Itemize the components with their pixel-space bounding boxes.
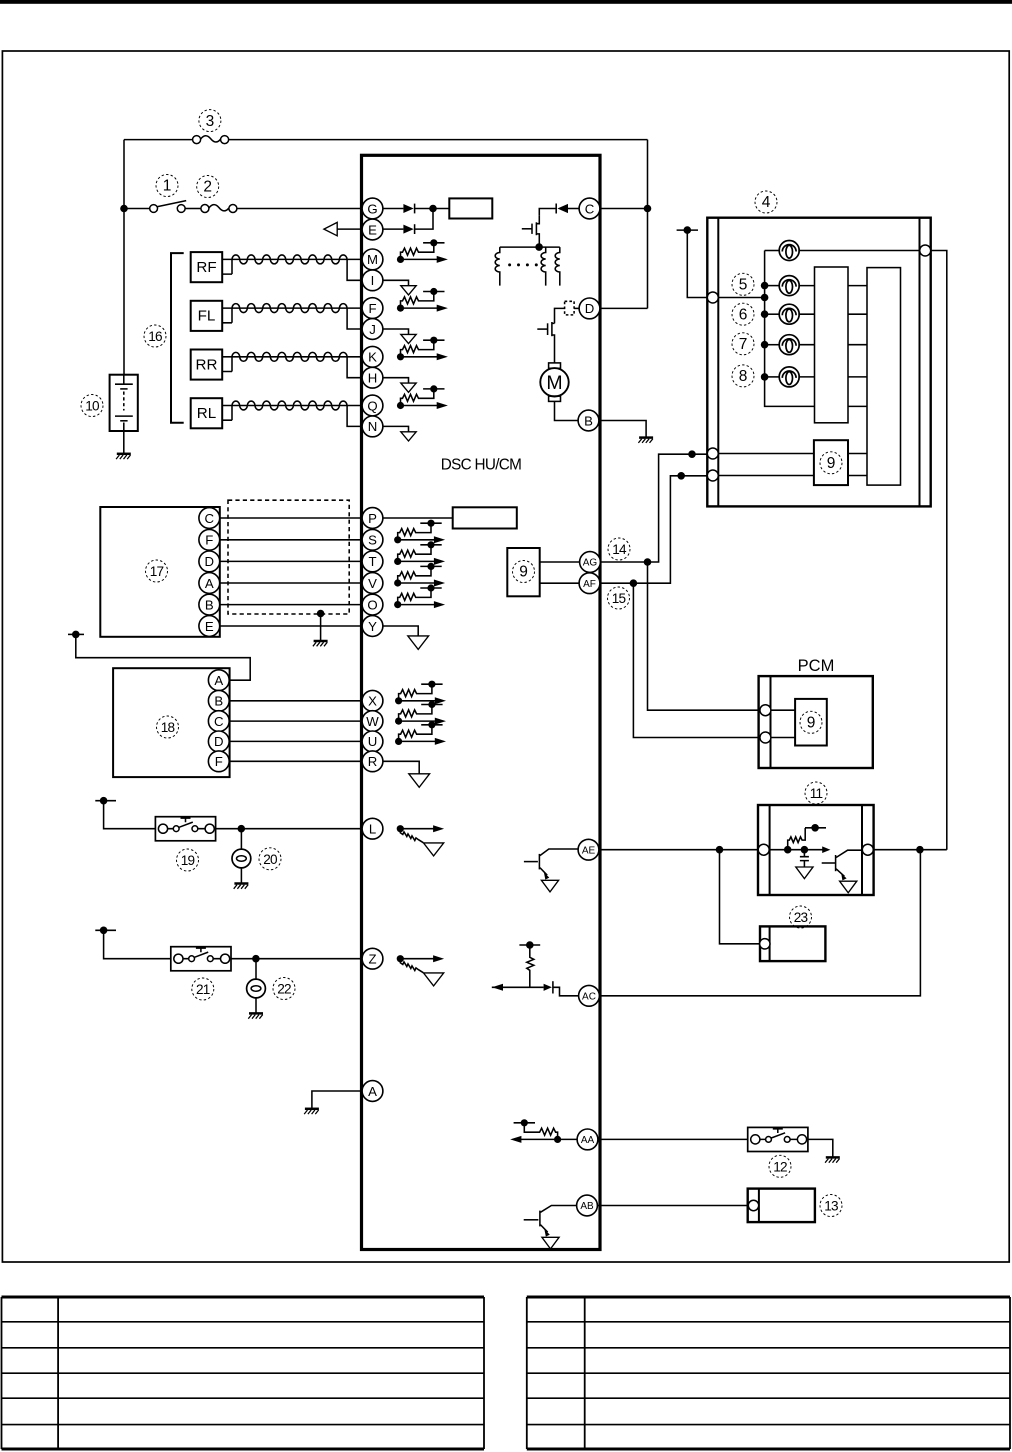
- FET pump motor driver (lower): [551, 322, 553, 336]
- terminal H: [362, 367, 383, 388]
- svg-text:14: 14: [612, 542, 627, 557]
- sensor17 pin E: [199, 616, 220, 637]
- svg-text:AG: AG: [583, 558, 598, 569]
- label 21: [192, 978, 214, 1000]
- label 18: [157, 716, 179, 738]
- label 17: [146, 560, 168, 582]
- wire switch19 to L: [216, 828, 363, 830]
- cluster pin AG: [707, 448, 718, 459]
- input circuit: [395, 701, 446, 725]
- switch 19: [155, 817, 215, 841]
- wire pin to gauge 9 top: [718, 453, 814, 455]
- dotted core line: [508, 263, 511, 266]
- triangle J: [401, 334, 416, 343]
- wire 18-F: [229, 760, 362, 762]
- label 20: [259, 848, 281, 870]
- wire to switch 1: [124, 208, 150, 210]
- wheel speed sensor FL: [191, 301, 223, 331]
- warning lamp 1: [765, 250, 780, 252]
- ground battery: [116, 454, 131, 459]
- wire diode to FET1: [539, 209, 556, 216]
- triangle AE emitter: [541, 880, 558, 892]
- warning lamp 2: [765, 285, 780, 287]
- svg-text:AF: AF: [583, 579, 596, 590]
- triangle Y: [408, 636, 429, 650]
- junction to AC: [916, 846, 924, 854]
- terminal R: [362, 751, 383, 772]
- junction lamp bus: [761, 294, 769, 302]
- terminal X: [362, 690, 383, 711]
- diode at G: [403, 204, 413, 213]
- svg-text:AC: AC: [582, 991, 596, 1002]
- svg-text:M: M: [546, 372, 562, 394]
- svg-text:7: 7: [739, 336, 748, 353]
- input circuit: [394, 541, 445, 565]
- coil left: [495, 247, 500, 286]
- steering angle sensor 18: [113, 668, 230, 777]
- input circuit AA mirrored: [510, 1119, 561, 1143]
- fuse 2: [201, 205, 237, 213]
- box internal relay: [449, 198, 492, 218]
- svg-text:DSC HU/CM: DSC HU/CM: [441, 457, 521, 474]
- sensor17 pin A: [199, 573, 220, 594]
- svg-text:10: 10: [85, 399, 100, 414]
- wire AA cluster to AA: [558, 1138, 578, 1140]
- wire 17-A: [220, 582, 362, 584]
- svg-text:Q: Q: [367, 398, 377, 413]
- svg-text:E: E: [368, 222, 377, 237]
- sensor17 pin F: [199, 529, 220, 550]
- sensor18 pin D: [208, 731, 229, 752]
- wire E diode up to junction: [415, 209, 433, 230]
- cluster inner block left: [815, 267, 849, 423]
- terminal A: [362, 1081, 383, 1102]
- svg-text:Y: Y: [368, 619, 377, 634]
- wire D out: [600, 307, 648, 309]
- input circuit Q: [397, 385, 448, 409]
- wire sensor RF coil to M: [232, 258, 362, 260]
- ground A: [304, 1109, 319, 1114]
- terminal AA: [577, 1129, 598, 1150]
- svg-text:RL: RL: [197, 405, 216, 422]
- svg-text:F: F: [215, 754, 223, 769]
- junction to 23: [716, 846, 724, 854]
- shield dashed box: [228, 500, 349, 614]
- svg-text:A: A: [368, 1084, 377, 1099]
- wire to unit 23: [720, 850, 760, 944]
- svg-text:4: 4: [762, 194, 771, 211]
- wire P to box: [383, 517, 453, 519]
- terminal S: [362, 529, 383, 550]
- label 19: [177, 849, 199, 871]
- relay 11 internals: [769, 849, 804, 851]
- power stub Z: [95, 929, 116, 931]
- svg-text:9: 9: [807, 715, 816, 732]
- ignition switch 1: [150, 205, 158, 213]
- pump motor M: [549, 363, 561, 368]
- wire sensor RR to H: [347, 357, 362, 378]
- label 22: [273, 978, 295, 1000]
- svg-text:V: V: [368, 576, 377, 591]
- wire diode to C: [568, 208, 579, 210]
- ground B: [638, 438, 653, 443]
- svg-text:5: 5: [739, 277, 748, 294]
- pin 13: [748, 1200, 758, 1210]
- svg-text:M: M: [367, 252, 378, 267]
- power stub into cluster: [677, 229, 698, 231]
- wire cluster to AE net: [931, 251, 947, 850]
- power stub sensor 18: [68, 633, 84, 635]
- cluster pin AF: [707, 470, 718, 481]
- svg-text:9: 9: [827, 455, 836, 472]
- svg-text:AA: AA: [581, 1135, 595, 1146]
- output circuit L: [397, 825, 444, 856]
- internal wire I: [383, 280, 409, 285]
- wire 17-F: [220, 539, 362, 541]
- triangle N: [401, 432, 416, 441]
- input circuit: [395, 721, 446, 745]
- terminal T: [362, 551, 383, 572]
- wire power to 18-A: [76, 634, 250, 680]
- transistor at AE: [540, 849, 578, 856]
- triangle R: [409, 774, 430, 788]
- svg-text:Z: Z: [368, 951, 376, 966]
- svg-text:18: 18: [161, 720, 175, 735]
- svg-text:K: K: [368, 350, 377, 365]
- terminal L: [362, 818, 383, 839]
- internal wire J: [383, 329, 409, 334]
- terminal E: [362, 219, 383, 240]
- svg-text:D: D: [585, 301, 595, 316]
- junction C net: [644, 205, 652, 213]
- label 2: [197, 176, 219, 198]
- PCM CAN unit 9: [795, 699, 827, 746]
- wire fuse3 left: [124, 139, 193, 141]
- terminal C: [579, 198, 600, 219]
- wire 18-D: [229, 740, 362, 742]
- svg-text:13: 13: [824, 1199, 838, 1214]
- svg-text:T: T: [368, 554, 376, 569]
- legend table left: [2, 1297, 485, 1449]
- triangle I: [401, 286, 416, 295]
- terminal U: [362, 731, 383, 752]
- terminal F: [362, 298, 383, 319]
- ground 22: [248, 1013, 263, 1018]
- wire Y to triangle: [383, 626, 418, 636]
- terminal O: [362, 594, 383, 615]
- svg-text:U: U: [368, 734, 378, 749]
- wire fuse2 to terminal G: [237, 208, 362, 210]
- svg-text:FL: FL: [198, 308, 216, 325]
- svg-text:9: 9: [519, 564, 528, 581]
- svg-text:F: F: [205, 533, 213, 548]
- input circuit: [395, 681, 446, 705]
- wire 17-D: [220, 560, 362, 562]
- terminal AC: [579, 985, 600, 1006]
- svg-text:X: X: [368, 694, 377, 709]
- wheel speed sensor RF: [191, 252, 223, 282]
- cluster inner block right: [867, 268, 901, 486]
- wire to FET2: [555, 308, 565, 323]
- svg-text:D: D: [214, 734, 224, 749]
- svg-text:F: F: [368, 301, 376, 316]
- terminal G: [362, 198, 383, 219]
- svg-text:20: 20: [263, 852, 278, 867]
- wire 9 to AG: [540, 561, 580, 563]
- wire sensor RR coil to K: [232, 356, 362, 358]
- cluster gauge unit 9: [814, 440, 848, 485]
- wire switch21 to Z: [231, 958, 362, 960]
- cluster left rail: [717, 218, 719, 507]
- FET Q-motor-relay (upper): [535, 222, 537, 235]
- wheel speed sensor RL: [191, 398, 223, 428]
- input circuit M: [397, 239, 448, 263]
- cluster pin power: [707, 292, 718, 303]
- wire A to ground: [312, 1091, 362, 1108]
- legend table right: [527, 1297, 1010, 1449]
- ground 12: [825, 1157, 840, 1162]
- wire battery vertical: [123, 140, 125, 375]
- wire sensor RL coil to Q: [232, 405, 362, 407]
- power stub L: [95, 800, 116, 802]
- battery 10: [110, 375, 138, 431]
- ground shield: [313, 641, 328, 646]
- input circuit: [394, 563, 445, 587]
- terminal AG: [580, 552, 601, 573]
- wire AF net: [600, 476, 707, 583]
- svg-text:12: 12: [773, 1160, 787, 1175]
- terminal D: [579, 298, 600, 319]
- svg-text:L: L: [369, 821, 376, 836]
- terminal N: [362, 416, 383, 437]
- svg-text:19: 19: [181, 853, 195, 868]
- wire sensor RF to I: [347, 259, 362, 280]
- svg-text:W: W: [366, 714, 379, 729]
- wire motor to B: [555, 401, 579, 420]
- junction coil feed: [535, 243, 543, 251]
- wire stub to switch 21: [104, 930, 171, 958]
- svg-text:R: R: [368, 754, 378, 769]
- svg-text:16: 16: [148, 329, 162, 344]
- svg-text:C: C: [214, 714, 224, 729]
- terminal AE: [578, 839, 599, 860]
- warning lamp 4: [765, 344, 780, 346]
- wire 17-E: [220, 625, 362, 627]
- terminal AF: [579, 573, 600, 594]
- label 5: [732, 273, 754, 295]
- label 6: [732, 303, 754, 325]
- terminal I: [362, 270, 383, 291]
- terminal M: [362, 249, 383, 270]
- svg-text:3: 3: [206, 113, 215, 130]
- input circuit: [394, 584, 445, 608]
- wire AB to unit 13: [597, 1205, 748, 1207]
- svg-text:6: 6: [739, 306, 748, 323]
- wire AF to PCM: [633, 583, 760, 737]
- svg-text:D: D: [205, 554, 215, 569]
- svg-text:N: N: [368, 419, 378, 434]
- label 15: [608, 587, 630, 609]
- svg-text:I: I: [371, 273, 375, 288]
- diagnostic unit 13: [748, 1189, 815, 1223]
- label 1: [156, 175, 178, 197]
- label 16: [144, 325, 166, 347]
- warning lamp 5: [765, 376, 780, 378]
- brake switch 12: [748, 1127, 808, 1151]
- indicator 20: [240, 829, 242, 850]
- svg-text:RF: RF: [196, 259, 216, 276]
- input circuit F: [397, 288, 448, 312]
- bracket 16: [171, 253, 184, 423]
- wire E to diode: [383, 228, 404, 230]
- svg-text:RR: RR: [196, 356, 218, 373]
- label 8: [732, 365, 754, 387]
- top black bar: [0, 0, 1012, 4]
- internal wire N: [383, 426, 409, 431]
- junction 22: [252, 955, 260, 963]
- triangle H: [401, 383, 416, 392]
- cluster right rail: [919, 218, 921, 507]
- wire AC net: [599, 850, 921, 996]
- sensor17 pin B: [199, 594, 220, 615]
- sensor18 pin C: [208, 711, 229, 732]
- diode at C: [557, 204, 568, 213]
- input circuit K: [397, 337, 448, 361]
- pin 23: [760, 939, 770, 949]
- svg-text:A: A: [205, 576, 214, 591]
- switch 21: [171, 947, 231, 971]
- label 3: [199, 110, 221, 132]
- svg-text:2: 2: [203, 179, 212, 196]
- wire G to diode: [383, 208, 404, 210]
- terminal Y: [362, 616, 383, 637]
- label 4: [755, 191, 777, 213]
- indicator 22: [255, 959, 257, 980]
- sensor18 pin A: [208, 670, 229, 691]
- PCM pin 2: [760, 732, 771, 743]
- wire C out: [600, 208, 648, 210]
- svg-text:PCM: PCM: [798, 657, 835, 675]
- junction 20: [238, 825, 246, 833]
- svg-text:C: C: [585, 201, 595, 216]
- wire AE net left: [599, 849, 758, 851]
- wire AE net right: [874, 849, 947, 851]
- wire AG to PCM: [648, 562, 760, 710]
- wire lamp1 to pin: [798, 250, 919, 252]
- svg-text:H: H: [368, 370, 378, 385]
- wire 17-B: [220, 604, 362, 606]
- box internal unit at P: [453, 507, 517, 528]
- DSC HU/CM control module box: [362, 155, 601, 1249]
- terminal AB: [577, 1195, 598, 1216]
- wire fuse3 right to C/D net: [229, 139, 648, 141]
- wire diode to box: [415, 208, 450, 210]
- ground 20: [234, 884, 249, 889]
- svg-text:G: G: [367, 201, 377, 216]
- coil right: [555, 247, 560, 286]
- pin 11 right: [862, 844, 873, 855]
- wire 9 to AF: [540, 582, 580, 584]
- terminal W: [362, 711, 383, 732]
- lamp supply bus: [765, 251, 815, 407]
- svg-text:E: E: [205, 619, 214, 634]
- instrument cluster 4 box: [707, 218, 930, 507]
- diode at E: [403, 225, 413, 234]
- terminal K: [362, 346, 383, 367]
- svg-text:B: B: [584, 413, 593, 428]
- transistor at AB: [540, 1206, 576, 1213]
- sensor18 pin B: [208, 690, 229, 711]
- cluster pin lamp1: [920, 245, 931, 256]
- label 13: [820, 1195, 842, 1217]
- coil middle: [541, 247, 546, 286]
- svg-text:15: 15: [612, 591, 626, 606]
- label 23: [790, 906, 812, 928]
- svg-text:B: B: [205, 597, 214, 612]
- wire E arrow: [337, 228, 362, 230]
- wheel speed sensor RR: [191, 350, 223, 380]
- pin 11 left: [758, 844, 769, 855]
- triangle AB emitter: [542, 1237, 559, 1249]
- warning lamp 3: [765, 313, 780, 315]
- wire R to triangle: [383, 761, 419, 774]
- svg-text:P: P: [368, 511, 377, 526]
- wire 18-C: [229, 720, 362, 722]
- PCM left rail: [770, 676, 772, 768]
- label 7: [732, 333, 754, 355]
- svg-text:23: 23: [794, 910, 808, 925]
- PCM pin 1: [760, 705, 771, 716]
- svg-text:B: B: [214, 694, 223, 709]
- wire 18-B: [229, 700, 362, 702]
- solenoid valve coils: [500, 246, 560, 248]
- wire sensor FL to J: [347, 308, 362, 329]
- svg-text:AE: AE: [582, 845, 596, 856]
- svg-text:A: A: [214, 673, 223, 688]
- wire stub to switch 19: [104, 801, 156, 829]
- input circuit: [394, 520, 445, 544]
- junction G/E diodes: [429, 205, 437, 213]
- svg-text:C: C: [205, 511, 215, 526]
- wire sensor FL coil to F: [232, 307, 362, 309]
- svg-text:21: 21: [196, 982, 210, 997]
- wire AG net: [600, 454, 707, 562]
- triangle 11 emitter: [840, 881, 857, 893]
- svg-text:11: 11: [810, 786, 823, 801]
- svg-text:S: S: [368, 533, 377, 548]
- wire switch12 to ground: [808, 1139, 833, 1156]
- terminal P: [362, 508, 383, 529]
- svg-text:8: 8: [739, 368, 748, 385]
- svg-text:17: 17: [150, 564, 164, 579]
- terminal J: [362, 319, 383, 340]
- wire 17-C: [220, 517, 362, 519]
- fuse 3: [193, 136, 229, 144]
- label 14: [608, 538, 630, 560]
- sensor18 pin F: [208, 751, 229, 772]
- label 10: [81, 395, 103, 417]
- wire switch1 to fuse2: [185, 208, 201, 210]
- label 12: [769, 1155, 791, 1177]
- internal wire H: [383, 378, 409, 383]
- junction shield ground: [317, 610, 325, 618]
- svg-text:22: 22: [277, 982, 291, 997]
- junction battery/IG: [120, 205, 128, 213]
- svg-text:J: J: [369, 322, 376, 337]
- wire B to ground: [599, 421, 646, 437]
- label 11: [805, 782, 827, 804]
- AC internal circuit: [519, 944, 540, 946]
